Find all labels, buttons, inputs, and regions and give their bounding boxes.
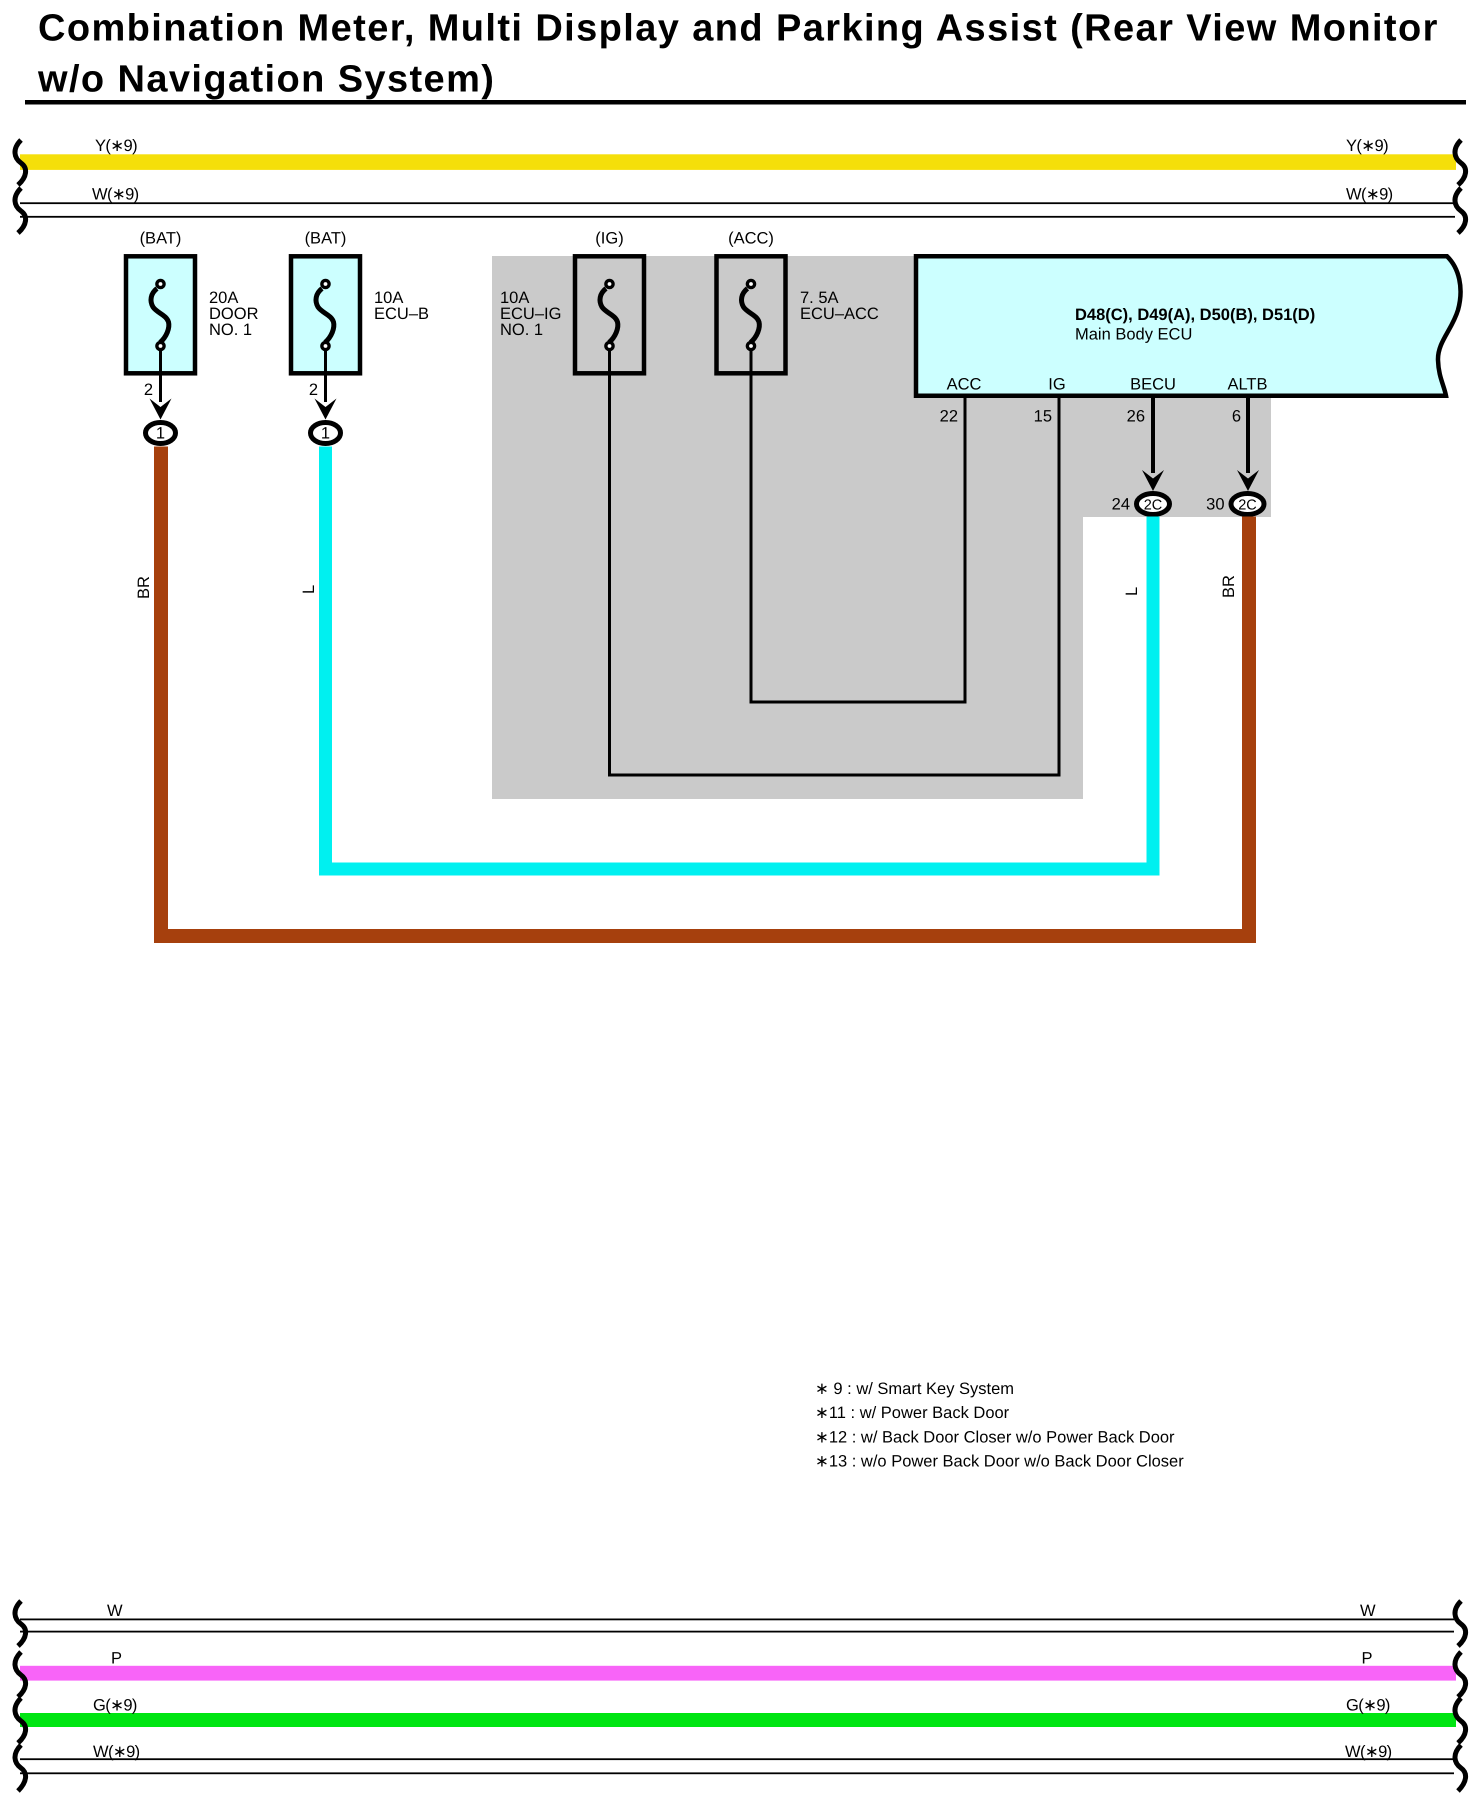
svg-text:Combination Meter, Multi Displ: Combination Meter, Multi Display and Par… — [38, 8, 1439, 50]
fuse 20A DOOR NO.1 — [126, 230, 259, 374]
break symbol left W(*9) bottom — [15, 1745, 26, 1791]
break symbol left W bottom — [15, 1601, 26, 1646]
svg-text:W: W — [107, 1602, 123, 1620]
break symbol right Y — [1455, 140, 1466, 185]
fuse 10A ECU-B — [291, 230, 429, 374]
wire BR brown — [161, 447, 1249, 937]
wire L cyan — [326, 447, 1154, 870]
svg-text:L: L — [300, 585, 318, 594]
svg-text:ACC: ACC — [947, 376, 982, 394]
wire ACC fuse to ECU pin 22 — [751, 349, 965, 702]
svg-text:1: 1 — [321, 425, 330, 443]
svg-text:G(∗9): G(∗9) — [1346, 1697, 1390, 1715]
svg-text:D48(C), D49(A), D50(B), D51(D): D48(C), D49(A), D50(B), D51(D) — [1075, 306, 1315, 324]
break symbol left G — [15, 1698, 26, 1743]
svg-text:24: 24 — [1112, 496, 1130, 514]
break symbol left W top — [15, 188, 26, 233]
svg-text:(ACC): (ACC) — [728, 230, 774, 248]
wire ECU pin 6 ALTB stub — [1246, 398, 1250, 473]
svg-text:(BAT): (BAT) — [140, 230, 182, 248]
gray harness background — [492, 256, 1271, 799]
svg-text:6: 6 — [1232, 408, 1241, 426]
break symbol left Y — [15, 140, 26, 185]
connector 1 (fuse2) — [311, 423, 341, 444]
svg-text:IG: IG — [1048, 376, 1065, 394]
fuse2 pin 2 stub — [324, 350, 327, 402]
svg-text:2C: 2C — [1144, 498, 1163, 514]
svg-text:22: 22 — [940, 408, 958, 426]
fuse 10A ECU-IG NO.1 — [500, 230, 644, 374]
connector 2C (BECU) — [1112, 494, 1170, 515]
svg-text:BR: BR — [135, 576, 153, 599]
svg-text:NO. 1: NO. 1 — [209, 321, 252, 339]
svg-text:BECU: BECU — [1130, 376, 1176, 394]
title — [37, 8, 1439, 101]
svg-text:∗12 : w/ Back Door Closer w/o: ∗12 : w/ Back Door Closer w/o Power Back… — [815, 1429, 1175, 1447]
connector 2C (ALTB) — [1206, 494, 1264, 515]
break symbol right G — [1455, 1698, 1466, 1743]
svg-text:1: 1 — [156, 425, 165, 443]
svg-text:∗13 : w/o Power Back Door w/o: ∗13 : w/o Power Back Door w/o Back Door … — [815, 1453, 1184, 1471]
svg-text:P: P — [111, 1650, 122, 1668]
svg-text:L: L — [1123, 587, 1141, 596]
wire ECU pin 26 BECU stub — [1151, 398, 1155, 473]
bus wire W(*9) top — [20, 186, 1455, 218]
svg-text:(IG): (IG) — [595, 230, 623, 248]
bus wire G(*9) bottom — [20, 1697, 1456, 1728]
connector 1 (fuse1) — [146, 423, 176, 444]
bus wire Y(*9) top — [20, 137, 1456, 170]
svg-text:ALTB: ALTB — [1227, 376, 1267, 394]
svg-text:26: 26 — [1127, 408, 1145, 426]
svg-text:W(∗9): W(∗9) — [92, 186, 139, 204]
svg-text:Main Body ECU: Main Body ECU — [1075, 326, 1192, 344]
svg-text:P: P — [1362, 1650, 1373, 1668]
break symbol right W top — [1455, 188, 1466, 233]
arrow into connector 2C (BECU) — [1142, 470, 1164, 491]
title underline — [25, 100, 1466, 105]
fuse 7.5A ECU-ACC — [717, 230, 879, 374]
break symbol right P — [1455, 1652, 1466, 1697]
svg-text:Y(∗9): Y(∗9) — [1346, 137, 1388, 155]
notes — [815, 1380, 1184, 1471]
wire IG fuse to ECU pin 15 — [610, 349, 1060, 775]
break symbol right W bottom — [1455, 1601, 1466, 1646]
svg-text:BR: BR — [1220, 575, 1238, 598]
bus wire W bottom — [20, 1602, 1454, 1633]
svg-text:G(∗9): G(∗9) — [93, 1697, 137, 1715]
svg-text:∗ 9 : w/ Smart Key System: ∗ 9 : w/ Smart Key System — [815, 1380, 1014, 1398]
svg-text:30: 30 — [1206, 496, 1224, 514]
fuse1 pin 2 stub — [159, 350, 162, 402]
bus wire W(*9) bottom — [20, 1743, 1454, 1774]
Main Body ECU box U1 — [916, 256, 1461, 396]
arrow into connector 2C (ALTB) — [1237, 470, 1259, 491]
svg-text:ECU–B: ECU–B — [374, 305, 429, 323]
svg-text:∗11 : w/ Power Back Door: ∗11 : w/ Power Back Door — [815, 1404, 1010, 1422]
svg-text:W: W — [1360, 1602, 1376, 1620]
svg-text:Y(∗9): Y(∗9) — [95, 137, 137, 155]
svg-text:W(∗9): W(∗9) — [93, 1743, 140, 1761]
arrow into connector 1 (fuse1) — [150, 399, 172, 420]
svg-text:2C: 2C — [1238, 498, 1257, 514]
svg-text:W(∗9): W(∗9) — [1346, 186, 1393, 204]
break symbol right W(*9) bottom — [1455, 1745, 1466, 1791]
svg-text:(BAT): (BAT) — [305, 230, 347, 248]
svg-text:15: 15 — [1034, 408, 1052, 426]
svg-text:ECU–ACC: ECU–ACC — [800, 305, 879, 323]
svg-text:W(∗9): W(∗9) — [1345, 1743, 1392, 1761]
svg-text:w/o Navigation System): w/o Navigation System) — [37, 59, 495, 101]
bus wire P bottom — [20, 1650, 1456, 1681]
svg-text:NO. 1: NO. 1 — [500, 321, 543, 339]
arrow into connector 1 (fuse2) — [315, 399, 337, 420]
svg-text:2: 2 — [144, 381, 153, 399]
break symbol left P — [15, 1652, 26, 1697]
svg-text:2: 2 — [309, 381, 318, 399]
